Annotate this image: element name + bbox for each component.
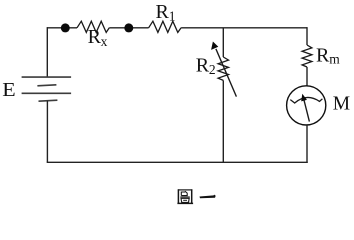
svg-text:2: 2: [209, 62, 216, 77]
svg-text:R: R: [156, 1, 170, 23]
caption figure-one character 圖: [177, 189, 193, 204]
node T-junction of R2 branch: [222, 27, 224, 30]
junction dot J1: [61, 23, 70, 32]
svg-text:m: m: [329, 52, 340, 67]
caption figure-one character 一: [200, 195, 216, 199]
wire meter to bottom-right corner: [306, 125, 308, 163]
wire top-right segment: [181, 27, 307, 29]
junction dot J2: [124, 23, 133, 32]
meter M needle: [301, 94, 309, 122]
wire left vertical: [46, 27, 48, 77]
svg-text:R: R: [88, 26, 102, 48]
svg-text:E: E: [2, 79, 15, 101]
svg-text:1: 1: [169, 9, 176, 24]
resistor Rx: [77, 21, 109, 32]
label R1: [156, 1, 176, 23]
meter M scale arc: [290, 97, 322, 103]
meter M body: [287, 86, 326, 125]
label Rm: [316, 45, 340, 67]
variable resistor R2 zigzag: [218, 57, 228, 80]
wire right vertical upper: [306, 27, 308, 45]
wire top-left segment: [47, 27, 77, 29]
svg-text:R: R: [196, 55, 210, 77]
wire between Rx and R1: [109, 27, 148, 29]
wire battery to bottom-left corner: [46, 101, 48, 163]
label Rx: [88, 26, 108, 49]
variable resistor R2 arrow: [211, 42, 236, 97]
svg-text:M: M: [333, 93, 350, 114]
battery E: [22, 77, 72, 101]
wire Rm to meter: [306, 67, 308, 86]
label R2: [196, 55, 216, 78]
label E: [2, 79, 15, 101]
label M: [333, 93, 350, 114]
wire R2 branch lower: [222, 80, 224, 162]
svg-text:x: x: [101, 34, 108, 49]
svg-text:R: R: [316, 45, 330, 67]
wire R2 branch upper: [222, 28, 224, 57]
resistor R1: [149, 21, 182, 32]
wire bottom: [47, 161, 308, 163]
resistor Rm: [302, 45, 312, 67]
